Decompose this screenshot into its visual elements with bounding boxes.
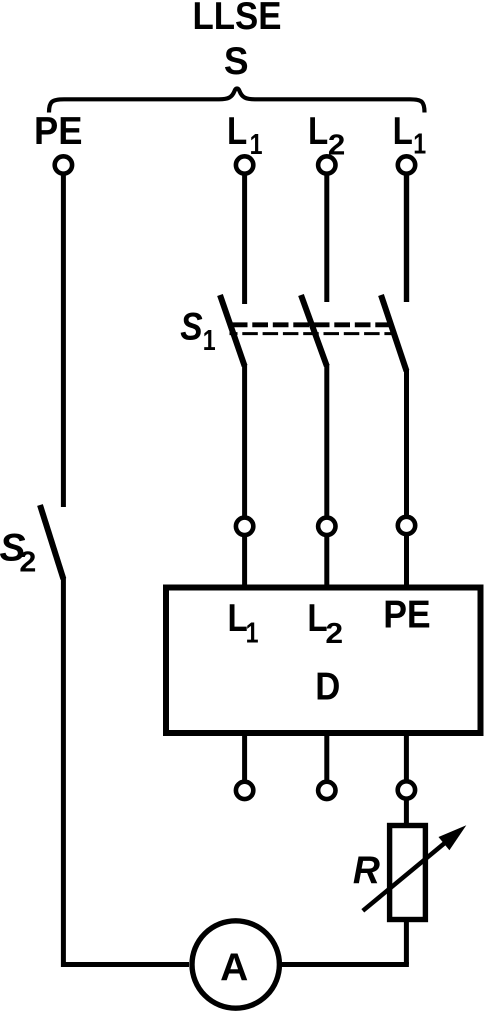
svg-text:PE: PE	[383, 594, 431, 637]
svg-text:L: L	[393, 108, 413, 152]
node col2 terminal	[318, 518, 335, 535]
resistor arrow (variability)	[363, 837, 452, 911]
svg-text:L: L	[227, 108, 247, 152]
wire PE vertical	[61, 174, 66, 507]
svg-text:1: 1	[250, 127, 263, 160]
brace S	[49, 88, 425, 112]
wire resistor bottom	[404, 919, 409, 965]
wire col2 to box	[324, 535, 329, 588]
node col3 terminal	[398, 517, 415, 534]
svg-text:D: D	[315, 665, 340, 708]
svg-text:2: 2	[325, 617, 343, 649]
switch S1 blade 1	[220, 295, 245, 366]
svg-text:L: L	[308, 108, 328, 152]
svg-text:L: L	[228, 595, 248, 639]
svg-text:2: 2	[19, 546, 36, 578]
switch S1 blade 3	[381, 295, 407, 371]
svg-text:1: 1	[203, 324, 216, 357]
svg-text:1: 1	[246, 616, 259, 649]
terminal PE	[55, 156, 72, 173]
svg-text:PE: PE	[34, 110, 83, 153]
wire col2 middle	[324, 364, 329, 518]
switch S2 blade	[40, 505, 63, 579]
wire terminal to resistor	[404, 798, 409, 826]
terminal col2 bottom	[318, 782, 335, 799]
svg-text:R: R	[353, 848, 380, 892]
svg-text:S: S	[180, 304, 202, 348]
wire col3 below box	[404, 733, 409, 782]
switch S1 coupling dashed link upper	[232, 322, 394, 327]
ammeter A body	[192, 921, 279, 1008]
terminal L1 right	[398, 156, 415, 173]
wire col2 below box	[324, 733, 329, 782]
wire col3 to box	[404, 534, 409, 588]
wire col1 to box	[242, 535, 247, 588]
wire col1 below box	[242, 733, 247, 782]
svg-text:1: 1	[413, 127, 426, 160]
terminal L1	[236, 156, 253, 173]
wire S2 lower	[63, 577, 189, 965]
device D box	[166, 588, 481, 734]
svg-text:LLSE: LLSE	[193, 0, 282, 38]
svg-text:A: A	[220, 946, 248, 989]
terminal col1 bottom	[236, 782, 253, 799]
wire L1 right upper	[404, 174, 409, 302]
switch S1 coupling dashed link lower	[230, 332, 395, 335]
wire L2 upper	[324, 174, 329, 302]
node col1 terminal	[236, 518, 253, 535]
svg-text:S: S	[224, 40, 249, 83]
terminal col3 bottom	[398, 781, 415, 798]
wire col1 middle	[242, 364, 247, 518]
wire L1 upper	[242, 174, 247, 304]
switch S1 blade 2	[301, 295, 327, 366]
terminal L2	[318, 156, 335, 173]
wire bottom horizontal right	[282, 962, 409, 967]
wire col3 middle	[404, 369, 409, 518]
resistor R body	[390, 826, 426, 920]
